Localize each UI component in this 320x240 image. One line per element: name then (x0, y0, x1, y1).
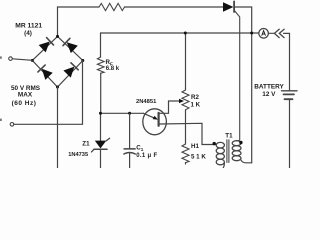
wire SCR gate (235, 11, 240, 141)
wire RF to emitter node (100, 73, 102, 113)
wire C1 bottom lead (129, 154, 131, 168)
svg-text:(60 Hz): (60 Hz) (12, 100, 37, 107)
terminal AC upper (9, 57, 13, 61)
wire zener to bottom (100, 149, 102, 168)
wire R2 top lead (185, 33, 187, 90)
wire emitter node rail (101, 112, 144, 114)
node T1 primary dot (213, 142, 216, 145)
transistor base bar (158, 113, 160, 126)
svg-text:(4): (4) (24, 30, 32, 37)
wire top rail right segment (125, 6, 224, 8)
wire C1 top lead (129, 113, 131, 148)
ammeter M1 (259, 29, 269, 39)
diode bridge MR 1121 frame (32, 36, 83, 87)
svg-text:R2: R2 (191, 94, 199, 101)
node T1 secondary dot (239, 141, 242, 144)
svg-text:12 V: 12 V (262, 91, 276, 98)
svg-text:0.1 μ F: 0.1 μ F (136, 153, 157, 159)
wire T1 secondary bottom return (241, 160, 252, 163)
wire wiper arrow to R2 (169, 100, 180, 102)
wire emitter diagonal with arrow (143, 113, 156, 119)
wire connector to battery (284, 33, 290, 90)
node bridge bottom (56, 86, 59, 89)
wire zener branch (100, 113, 102, 140)
diode D2 (top-right arm) (63, 38, 78, 53)
resistor (unlabeled, top rail) (99, 3, 125, 10)
transformer T1 secondary winding (232, 141, 241, 161)
diode D3 (bottom-left arm) (38, 65, 53, 80)
wire AC upper (12, 59, 32, 61)
svg-text:BATTERY: BATTERY (254, 83, 284, 90)
wire SCR cathode to rail (235, 7, 252, 163)
node bridge top (+) (56, 35, 59, 38)
node bridge left (31, 59, 34, 62)
transformer T1 core (226, 140, 228, 163)
resistor R2 1K (182, 90, 189, 110)
label ammeter A (262, 31, 266, 36)
svg-text:MR 1121: MR 1121 (15, 23, 42, 30)
wire R2 to H1 (185, 110, 187, 144)
wire top rail left segment (58, 7, 100, 37)
svg-text:H1: H1 (191, 143, 199, 150)
svg-text:MAX: MAX (18, 91, 33, 98)
connector chevrons (274, 29, 279, 37)
svg-text:2N4851: 2N4851 (136, 99, 157, 105)
SCR Q2 anode triangle (223, 2, 233, 12)
wire base B1 lead to T1 primary (160, 123, 217, 144)
resistor H1 5.1K (182, 144, 189, 163)
SCR cathode bar (233, 1, 235, 12)
diode D4 (bottom-right arm) (63, 63, 78, 78)
svg-text:1N4735: 1N4735 (68, 152, 88, 158)
transformer T1 primary winding (216, 142, 224, 167)
wire bridge bottom down (57, 87, 59, 168)
node R2 rail junction (184, 32, 187, 35)
resistor RF 6.8k (97, 57, 104, 73)
node RF/zener junction (99, 112, 102, 115)
battery B1 plates (282, 90, 298, 92)
svg-text:1 K: 1 K (191, 101, 201, 108)
wire AC lower to bridge right vertex (14, 61, 83, 125)
terminal AC lower (10, 123, 14, 127)
zener Z1 1N4735 (95, 141, 107, 149)
wire mid rail (SCR cathode / ammeter rail) (101, 32, 259, 34)
wire ammeter to connector (268, 32, 274, 34)
node SCR cathode rail junction (250, 32, 253, 35)
svg-text:5 1 K: 5 1 K (191, 154, 206, 161)
diode D1 (top-left arm) (39, 38, 54, 53)
svg-text:T1: T1 (225, 133, 233, 140)
transistor Q1 2N4851 (UJT) body (143, 109, 167, 135)
capacitor C1 0.1uF (124, 148, 135, 150)
svg-text:6.8 k: 6.8 k (106, 66, 120, 72)
svg-text:Z1: Z1 (82, 141, 90, 148)
wire base B2 lead (159, 101, 169, 113)
wire RF branch upper (100, 33, 102, 57)
node C1 junction (128, 112, 131, 115)
node bridge right (81, 59, 84, 62)
edge artifact marks (0, 56, 2, 58)
wire battery negative down (289, 99, 291, 168)
